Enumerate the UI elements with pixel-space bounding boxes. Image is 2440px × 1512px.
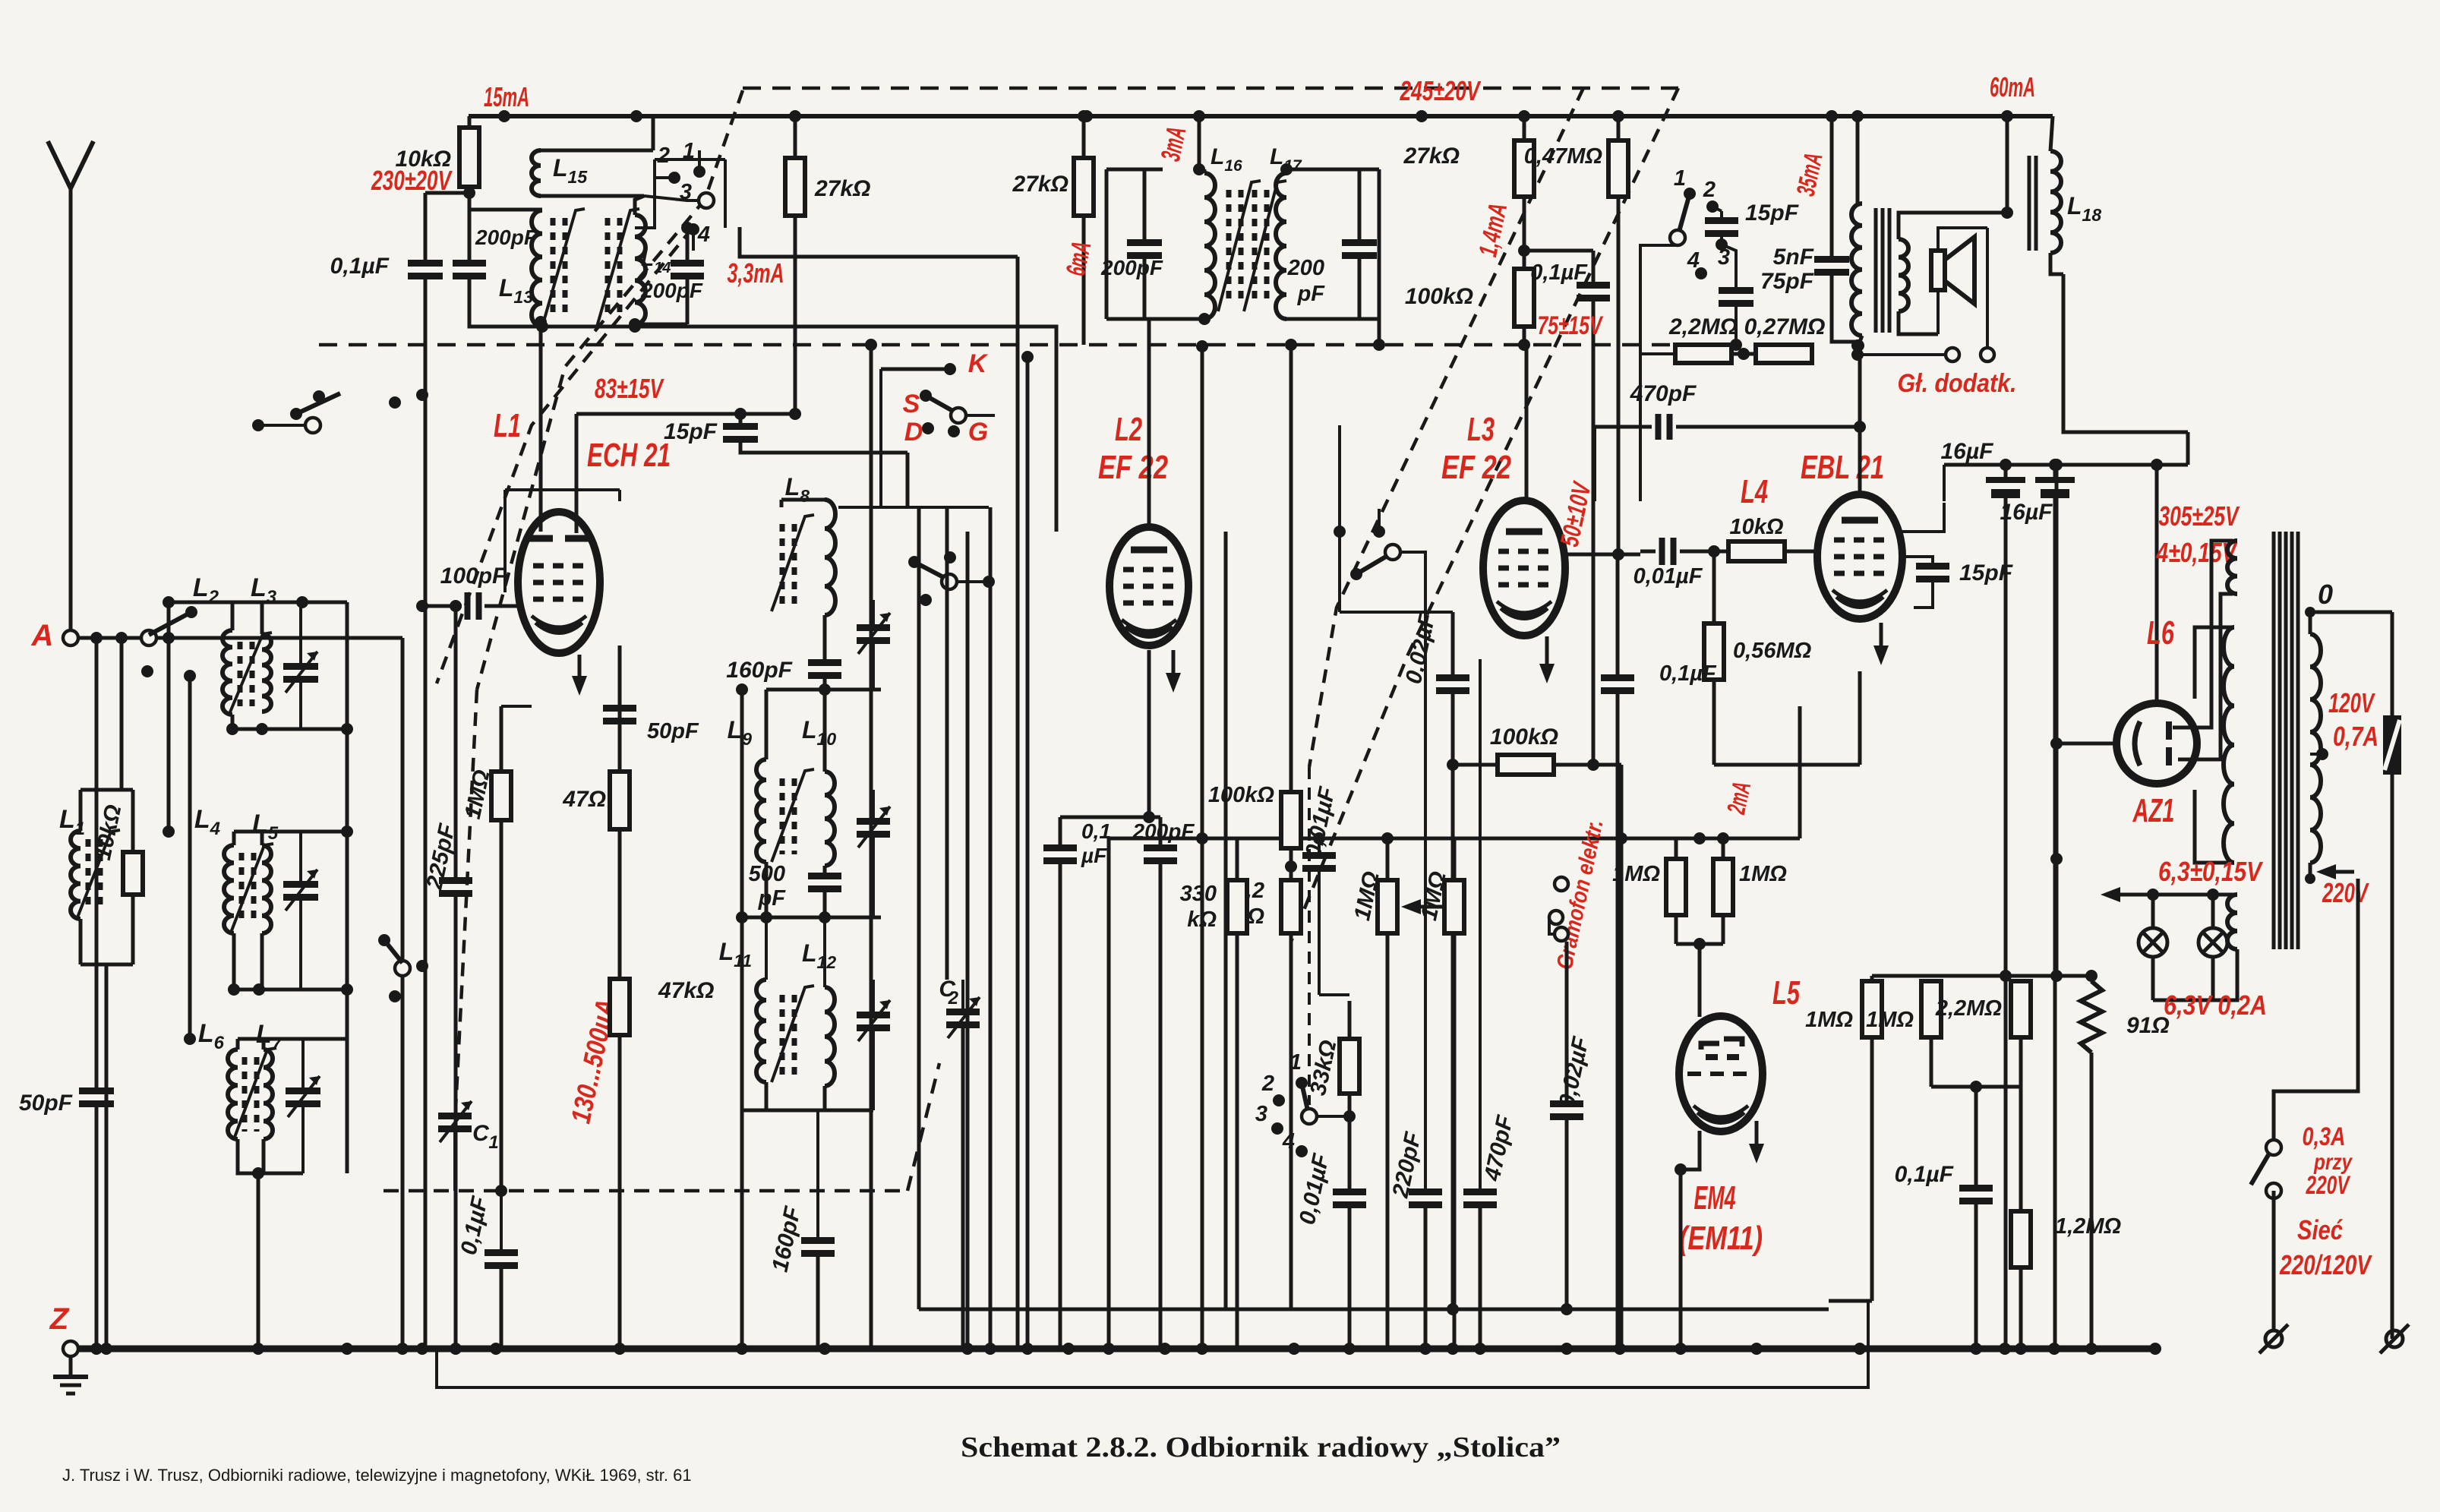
coil L3 [251,573,277,712]
label L4 red [1741,473,1768,510]
wire switch t left [1640,245,1678,501]
coil L4 [194,805,234,933]
svg-text:91Ω: 91Ω [2126,1013,2170,1038]
resistor 2.2M r [1935,976,2031,1087]
wire v1342 [1016,257,1020,1349]
osc switch 1 [683,139,705,178]
label Gl dodatk [1898,369,2017,398]
capacitor 200pF L17 [1287,169,1377,319]
resistor 1M osc [460,706,532,1191]
svg-text:2,2MΩ: 2,2MΩ [1935,996,2002,1021]
svg-text:J. Trusz i W. Trusz, Odbiornik: J. Trusz i W. Trusz, Odbiorniki radiowe,… [62,1466,692,1485]
resistor 33k [1305,1001,1359,1192]
core L17 [1244,181,1286,311]
resistor 47 ohm [562,646,630,979]
wire L2L3 bottom [226,715,347,735]
core L11-L12 [772,986,814,1082]
svg-text:15pF: 15pF [1959,560,2013,586]
svg-text:200pF: 200pF [1132,819,1195,843]
svg-text:75±15V: 75±15V [1538,311,1604,340]
trimmer cap L2L3 [283,602,318,729]
capacitor 160pF low [768,1110,835,1349]
switch band 1 [1289,1050,1308,1089]
svg-text:4: 4 [697,223,710,247]
wire if step [629,227,1056,532]
svg-text:µF: µF [1081,844,1107,867]
capacitor 0.1uF out [1895,1087,1993,1349]
svg-text:305±25V: 305±25V [2159,500,2240,532]
wire EM4 left [1675,1131,1700,1349]
label 305V [2159,500,2240,532]
core L1 [77,830,120,917]
svg-text:0,56MΩ: 0,56MΩ [1733,639,1812,663]
svg-text:100pF: 100pF [440,563,507,589]
tube EF22a arrow [1166,650,1181,693]
coil L1 [59,790,85,964]
terminal phi right [2380,1324,2409,1353]
svg-text:16µF: 16µF [1941,439,1994,464]
wire coil right side [341,602,353,1173]
coil L8 [781,473,835,663]
label 35mA [1791,150,1829,199]
capacitor 0.02uF af [1550,995,1594,1309]
svg-text:pF: pF [758,886,787,911]
svg-text:EM4: EM4 [1694,1179,1736,1217]
switch S [903,390,966,423]
wire v1210 [917,507,921,1309]
coil L5 [252,810,279,933]
svg-text:L4: L4 [1741,473,1768,510]
svg-text:kΩ: kΩ [1187,908,1217,932]
wire EM4 top [1676,706,1800,844]
switch band 4 [1282,1129,1308,1157]
resistor 330k [1180,838,1247,1349]
label EF22 b [1441,449,1511,486]
mains switch [2251,1140,2281,1198]
wire mains switch feed [2274,879,2358,1140]
resistor 2.2M v [1229,879,1301,1309]
wire det feed [1338,425,1341,532]
switch band 3 [1255,1102,1283,1135]
wire switch to term [2272,1191,2276,1330]
svg-text:245±20V: 245±20V [1400,75,1482,106]
svg-text:47Ω: 47Ω [562,787,606,812]
svg-text:EF 22: EF 22 [1441,449,1511,486]
resistor 27k a [785,116,870,420]
svg-text:G: G [968,418,988,447]
switch lower cluster [908,551,995,606]
label 220Vb [2306,1171,2351,1200]
coil L16 box [1106,116,1205,319]
label 50+-10V [1555,478,1597,549]
capacitor 200pF L13 [453,210,635,327]
bus junction dots [90,1343,2161,1355]
wire v1247 [945,507,949,980]
svg-text:L6: L6 [2147,614,2174,652]
transformer winding 4V [2227,541,2237,594]
resistor 1M r2 [1866,976,1941,1087]
svg-text:75pF: 75pF [1760,269,1814,294]
svg-text:AZ1: AZ1 [2132,792,2175,829]
osc switch 2 [655,144,680,184]
svg-text:2: 2 [1703,178,1716,202]
trimmer L8 [857,600,890,690]
tube EF22 b [1483,500,1565,636]
dial lamp b [2199,895,2227,1000]
wire L18 down [2063,274,2188,432]
aux speaker jacks [1851,228,1994,361]
svg-text:D: D [904,418,923,447]
capacitor 470pF top [1595,381,1866,501]
svg-text:83±15V: 83±15V [595,373,664,404]
switch G [948,415,995,447]
svg-text:330: 330 [1180,882,1217,906]
wire v1614 [1224,532,1228,1309]
switch band 2 [1261,1072,1285,1106]
svg-text:15pF: 15pF [1745,200,1799,226]
svg-text:0,1µF: 0,1µF [1530,260,1588,285]
output transformer secondary [1899,213,2007,334]
dashed osc link [456,690,477,1109]
capacitor 50pF mixer [603,705,699,743]
core L18 [2029,156,2036,251]
capacitor 0.1uF input [330,193,469,1349]
resistor 100k v [1208,339,1301,880]
gramofon jacks [1549,877,1568,941]
wire right mid bus [1872,970,2098,982]
svg-text:0,1µF: 0,1µF [330,254,390,279]
transformer core [2274,532,2298,949]
svg-text:500: 500 [749,862,785,886]
svg-text:5nF: 5nF [1773,245,1814,270]
wire HT node [1944,432,2188,501]
antenna [48,141,93,636]
resistor 1M b [1416,838,1464,1349]
band switch cluster [252,389,428,433]
wire v1274 [966,532,970,1349]
tap 120V [2310,687,2378,760]
dial lamp a [2139,895,2167,1000]
core L9-L10 [772,769,814,862]
capacitor 15pF t [1705,200,1799,251]
label ECH 21 [587,437,671,474]
wire EBL21 plate [1858,346,1862,493]
wire AZ1 plate [2050,459,2116,976]
dashed pot link [1308,767,1311,1105]
core L16 [1218,181,1261,311]
coil L9 [728,716,766,917]
svg-text:1MΩ: 1MΩ [1739,862,1787,886]
svg-text:1MΩ: 1MΩ [1805,1008,1853,1032]
trimmer cap L6L7 [286,1039,320,1173]
label L2 red [1115,411,1142,448]
resistor 0.47M [1524,116,1628,197]
tube EF22 a [1110,527,1188,646]
svg-text:15mA: 15mA [484,81,529,112]
label gramofon [1552,817,1608,971]
trimmer cap L4L5 [283,832,318,990]
svg-text:EBL 21: EBL 21 [1801,449,1884,486]
tube EBL21 arrow [1873,623,1889,665]
svg-text:0,01µF: 0,01µF [1634,564,1703,589]
capacitor 15pF osc [664,408,908,453]
svg-text:L3: L3 [1467,411,1495,448]
switch K [881,349,989,378]
tube ECH21 [518,512,600,653]
coil L2 [193,573,232,715]
wire v1147 [865,339,877,1349]
label siec [2297,1214,2343,1245]
wire L9L10 bottom [736,911,881,923]
core L13 [542,209,585,327]
caption [961,1432,1561,1463]
svg-text:EF 22: EF 22 [1098,449,1168,486]
capacitor 225pF [421,822,472,1349]
label 4V [2156,537,2238,568]
svg-text:220V: 220V [2322,877,2369,908]
capacitor 0.01uF coupl [1634,538,1728,589]
wire det row [1340,611,1453,614]
capacitor 16uF a [1941,439,2025,1349]
variable cap C2 [939,977,980,1349]
capacitor 15pF ebl [1902,557,2013,608]
label 75+-15V [1538,311,1604,340]
heater return wire [437,1301,1868,1387]
svg-text:pF: pF [1297,282,1326,306]
resistor 1.2M [2011,1087,2121,1349]
svg-text:6,3V 0,2A: 6,3V 0,2A [2164,990,2267,1021]
svg-text:0,1µF: 0,1µF [1659,661,1717,686]
wire 0.56M bottom [1714,671,1860,765]
capacitor 16uF b [2000,465,2075,1349]
capacitor 0.1uF screen [1524,251,1610,771]
svg-text:220V: 220V [2306,1171,2351,1200]
svg-text:200pF: 200pF [475,226,538,249]
svg-text:100kΩ: 100kΩ [1405,284,1473,309]
wire ECH21 screen [576,414,740,533]
capacitor 75pF [1719,269,1814,351]
switch band arm [1302,1083,1356,1124]
coil L7 [256,1020,283,1139]
coil L10 [802,690,836,876]
label 15mA [484,81,529,112]
coil L6 [198,1019,238,1139]
capacitor 0.02uF det [1401,611,1469,765]
svg-text:27kΩ: 27kΩ [1403,144,1460,169]
coil L17 [1270,144,1302,319]
AVC dashed bus [319,343,1675,347]
label 3.3mA [728,257,784,289]
coil L18 [2050,116,2101,274]
wire v1353 [1021,351,1034,1349]
resistor 47k ohm [610,978,714,1349]
svg-text:1,2MΩ: 1,2MΩ [2055,1214,2121,1239]
capacitor 200pF if [1132,817,1195,1349]
resistor 91 [2081,976,2170,1349]
label EM4 [1694,1179,1736,1217]
svg-text:10kΩ: 10kΩ [1729,515,1783,539]
wire r bottom row [1931,1081,2021,1093]
capacitor 100pF [416,563,519,620]
capacitor 0.1uF osc [456,1185,518,1349]
transformer HV winding [2195,627,2234,863]
tube AZ1 [2116,703,2197,784]
capacitor 220pF [1387,552,1442,1349]
wire gramofon [1565,942,1569,995]
capacitor 470pF af [1463,659,1518,1349]
resistor 1M r1 [1805,976,1882,1301]
svg-text:ECH 21: ECH 21 [587,437,671,474]
ground [53,1356,88,1394]
label L3 red [1467,411,1495,448]
svg-text:(EM11): (EM11) [1679,1220,1763,1257]
wire EF22b out [1565,548,1640,560]
label EM11 [1679,1220,1763,1257]
svg-text:Z: Z [49,1302,70,1336]
label 220V [2322,877,2369,908]
svg-text:0,1µF: 0,1µF [1895,1162,1954,1187]
core L6-L7 [234,1048,276,1139]
dashed diagonal pair [1291,88,1678,942]
svg-text:200: 200 [1287,256,1324,280]
wire EF22b plate [1526,197,1618,554]
top HT bus 245V [469,114,2053,118]
label L6 red [2147,614,2174,652]
svg-text:C: C [472,1121,490,1146]
heater arrow [2101,887,2237,902]
coil L16 [1198,144,1242,325]
terminal 0 [2305,579,2392,617]
terminal phi left [2259,1324,2288,1353]
svg-text:6,3±0,15V: 6,3±0,15V [2158,856,2263,887]
label 83+-15V [595,373,664,404]
resistor 10kOhm [371,116,479,210]
label 2mA [1722,779,1757,817]
svg-text:1MΩ: 1MΩ [1866,1008,1914,1032]
output transformer primary [1851,116,1862,346]
terminal A [31,619,78,652]
tube EM4 arrow [1749,1121,1764,1163]
wire left of r row [1829,1299,1872,1303]
svg-text:16µF: 16µF [2000,500,2053,525]
label 130..500uA [564,996,621,1126]
svg-text:47kΩ: 47kΩ [658,978,714,1003]
svg-text:1MΩ: 1MΩ [1612,862,1660,886]
capacitor 0.1uF det [1601,554,1717,1349]
svg-text:2: 2 [948,988,959,1009]
wire osc mid vertical [736,683,748,1349]
resistor 27k b [1012,116,1094,345]
fuse [2383,612,2401,1339]
svg-text:1: 1 [1289,1050,1302,1075]
label 6.3V [2158,856,2263,887]
svg-text:50pF: 50pF [647,719,699,743]
svg-text:15pF: 15pF [664,419,718,444]
trimmer L10 [857,790,890,917]
wire L9L10 top [766,690,881,759]
wire v1583 [1196,340,1208,1349]
resistor 0.56M [1704,551,1812,765]
capacitor 0.1uF if [1043,817,1111,1349]
wire osc box [505,490,620,592]
switch t4 [1687,248,1707,279]
switch t2 [1703,178,1722,213]
svg-text:L2: L2 [1115,411,1142,448]
transformer primary [2310,612,2321,879]
svg-text:3,3mA: 3,3mA [728,257,784,289]
wire EF22a cathode [1060,650,1160,823]
svg-text:1: 1 [1674,166,1686,191]
svg-text:0,7A: 0,7A [2333,721,2378,752]
svg-text:200pF: 200pF [1100,256,1163,279]
wire AZ1 filament b [2178,594,2233,759]
wire lamp bottom [2153,949,2267,1021]
svg-text:0,47MΩ: 0,47MΩ [1524,144,1603,169]
svg-text:Schemat 2.8.2. Odbiornik radio: Schemat 2.8.2. Odbiornik radiowy „Stolic… [961,1432,1561,1463]
label przy [2313,1150,2353,1175]
wire EM4 grid [1676,938,1723,1017]
transformer winding 6.3 [2227,895,2237,949]
variable cap C1 [438,1101,499,1191]
svg-text:160pF: 160pF [726,658,792,683]
wire h1104 [1109,832,1676,844]
label EF22 a [1098,449,1168,486]
svg-text:27kΩ: 27kΩ [814,176,870,201]
tube EF22b arrow [1539,636,1555,683]
core L8 [772,515,814,611]
wire v1304 [989,507,993,1349]
svg-text:220/120V: 220/120V [2279,1249,2372,1280]
svg-text:50pF: 50pF [19,1091,73,1116]
wire AZ1 filament a [2173,541,2233,728]
svg-text:Gł. dodatk.: Gł. dodatk. [1898,369,2017,398]
wire grid chain [450,600,462,881]
top AVC dashed bus [743,87,1678,90]
resistor 0.27M h [1640,314,1832,363]
output transformer core [1876,208,1889,333]
svg-text:2,2MΩ: 2,2MΩ [1668,314,1738,339]
svg-text:3: 3 [1255,1102,1267,1126]
wire ECH21 plate [535,316,547,532]
capacitor 200pF L14 [640,228,704,324]
label 245V [1400,75,1482,106]
switch wires mid [838,369,989,507]
svg-text:4: 4 [1282,1129,1295,1154]
coil L14 [629,196,687,330]
wire A row [79,632,402,644]
dashed osc bottom [384,1063,939,1191]
switch D [904,418,934,447]
wire L16 top feed [1203,169,1207,173]
resistor 100k avc h [1447,724,1621,1349]
switch det [1334,509,1400,612]
tube EBL21 [1817,494,1902,619]
label EBL21 red [1801,449,1884,486]
wire L1 branch [120,638,124,790]
switch t1 [1670,166,1696,245]
resistor 10k L4 [1708,515,1820,561]
resistor 10k ohm left [80,790,143,1349]
wire ebl screen [1902,503,1944,532]
svg-text:0,27MΩ: 0,27MΩ [1744,314,1826,339]
label 220 120V [2279,1249,2372,1280]
pot 1M volume [1349,838,1443,1349]
svg-text:L1: L1 [494,407,521,444]
wire L11L12 bottom [742,1109,873,1113]
label L5 red [1772,974,1800,1012]
svg-text:1: 1 [488,1132,498,1153]
resistor 1M em b [1713,838,1787,944]
